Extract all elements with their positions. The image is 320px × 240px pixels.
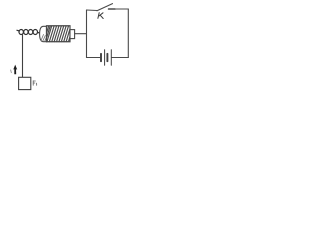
battery cell plates [101, 50, 111, 65]
cap shading marks [41, 35, 46, 42]
label at block [33, 81, 37, 86]
coil L1 lead loops [17, 30, 40, 35]
wire right vertical bus [86, 10, 88, 58]
label K [98, 13, 103, 19]
wire from coil down to block [22, 35, 24, 77]
arrow (block moves up) [13, 65, 17, 75]
switch K right contact [109, 8, 116, 10]
wire battery left to bus corner [87, 57, 101, 59]
solenoid L1 right end nub [70, 30, 75, 39]
wire contact to top-right corner [115, 8, 128, 10]
wire corner to battery right [112, 57, 129, 59]
stray tick left of arrow [10, 70, 13, 73]
wire nub to right bus [75, 33, 87, 35]
solenoid L1 body with winding hatch [47, 26, 71, 42]
wire right edge vertical [127, 9, 129, 58]
wire bus top to switch [87, 9, 98, 12]
solenoid L1 left cap [40, 26, 47, 41]
switch K blade [97, 4, 113, 11]
iron block B [19, 77, 31, 89]
